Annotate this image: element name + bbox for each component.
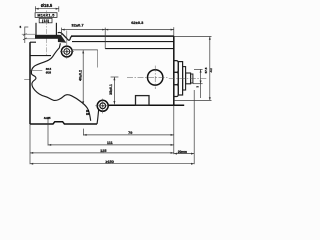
bottom extension line stem end: [193, 90, 195, 164]
svg-text:(18): (18): [42, 19, 50, 23]
inner bore line lower: [105, 48, 174, 50]
right height dim extension bottom: [174, 99, 212, 101]
stem centerline: [169, 77, 207, 79]
left top contour to flange: [30, 41, 36, 43]
bolt boss upper centerlines: [60, 31, 74, 59]
cavity leader line: [30, 69, 42, 71]
bottom extension line x48: [47, 119, 49, 146]
dim 111: [48, 144, 174, 146]
bottom fillet to boss: [97, 109, 99, 124]
svg-text:4xM5: 4xM5: [44, 116, 51, 120]
callout box (18): [39, 18, 52, 23]
dim 20mm stem: [174, 153, 194, 155]
body right edge: [173, 36, 175, 105]
hidden vertical at 97.6: [97, 50, 99, 68]
svg-text:35±0.1: 35±0.1: [109, 84, 113, 95]
body left edge: [29, 42, 31, 124]
extension line 32/62 boundary: [104, 28, 106, 49]
port neck: [36, 23, 56, 35]
svg-text:20mm: 20mm: [178, 150, 187, 154]
dim 79: [83, 134, 173, 136]
body bottom right edge: [108, 104, 184, 106]
body top edge: [71, 35, 174, 37]
svg-text:Ø28: Ø28: [46, 70, 52, 74]
svg-text:125: 125: [100, 149, 106, 153]
svg-text:Ø18.5: Ø18.5: [41, 3, 53, 8]
chamfer diagonal sliver: [62, 34, 73, 41]
svg-text:32±0.7: 32±0.7: [71, 23, 84, 28]
flange thickness dim line with top hook: [23, 27, 28, 43]
dimension Phi18.5 line: [35, 6, 58, 12]
port centerline: [45, 11, 47, 57]
flange left extension line upper: [22, 33, 35, 35]
dim >=150: [30, 163, 194, 165]
top dimension line 32 / 62: [62, 29, 174, 31]
extension line for 40 dim top: [73, 49, 98, 51]
right height dim line: [209, 37, 211, 101]
svg-text:≥150: ≥150: [105, 160, 113, 164]
svg-text:57.5: 57.5: [204, 67, 208, 73]
top dim arrows: [62, 29, 174, 31]
bottom boss centerlines: [95, 99, 110, 114]
bottom boss circles: [97, 100, 108, 111]
svg-text:79: 79: [128, 131, 132, 135]
flange section bar: [35, 35, 58, 39]
flange left extension line lower: [25, 38, 35, 40]
cavity arc and wavy contour: [31, 43, 90, 121]
svg-text:-0.2: -0.2: [209, 68, 213, 73]
dim stem diameter: [193, 69, 203, 98]
left edge weld tick: [24, 79, 29, 81]
svg-text:40±0.2: 40±0.2: [79, 70, 83, 81]
stem: [186, 73, 191, 84]
cavity top ledge: [30, 55, 51, 57]
stem end cap: [191, 74, 193, 83]
bottom extension line right edge: [173, 105, 175, 154]
thread callout box M16x1.5: [35, 13, 57, 18]
top profile ridge hump: [58, 32, 62, 33]
dim 125: [30, 152, 174, 154]
bottom extension line x83.4: [82, 129, 84, 136]
bolt boss upper circles: [61, 46, 72, 57]
right height dim extension top: [174, 36, 212, 38]
extension line left of 32 dim: [61, 28, 63, 36]
extension line right edge up: [173, 27, 175, 36]
svg-text:M16X1.5: M16X1.5: [37, 14, 54, 18]
inner bore line upper: [72, 41, 174, 43]
body bottom edge with notch: [30, 122, 97, 124]
dimension 40+-0.2 vertical: [82, 50, 84, 104]
bottom extension line left edge: [29, 124, 31, 164]
dimension 35+-0.1 vertical: [111, 77, 119, 104]
svg-text:62±0.3: 62±0.3: [131, 20, 144, 25]
small block on bottom edge: [136, 96, 150, 106]
svg-text:111: 111: [107, 141, 113, 145]
chamfer dark wedge: [58, 35, 66, 43]
hex nut side view: [174, 61, 179, 97]
spacer: [183, 67, 186, 90]
bore circle right: [127, 66, 169, 89]
washer: [178, 62, 182, 95]
dimension Phi18.5 arrows: [35, 8, 58, 10]
